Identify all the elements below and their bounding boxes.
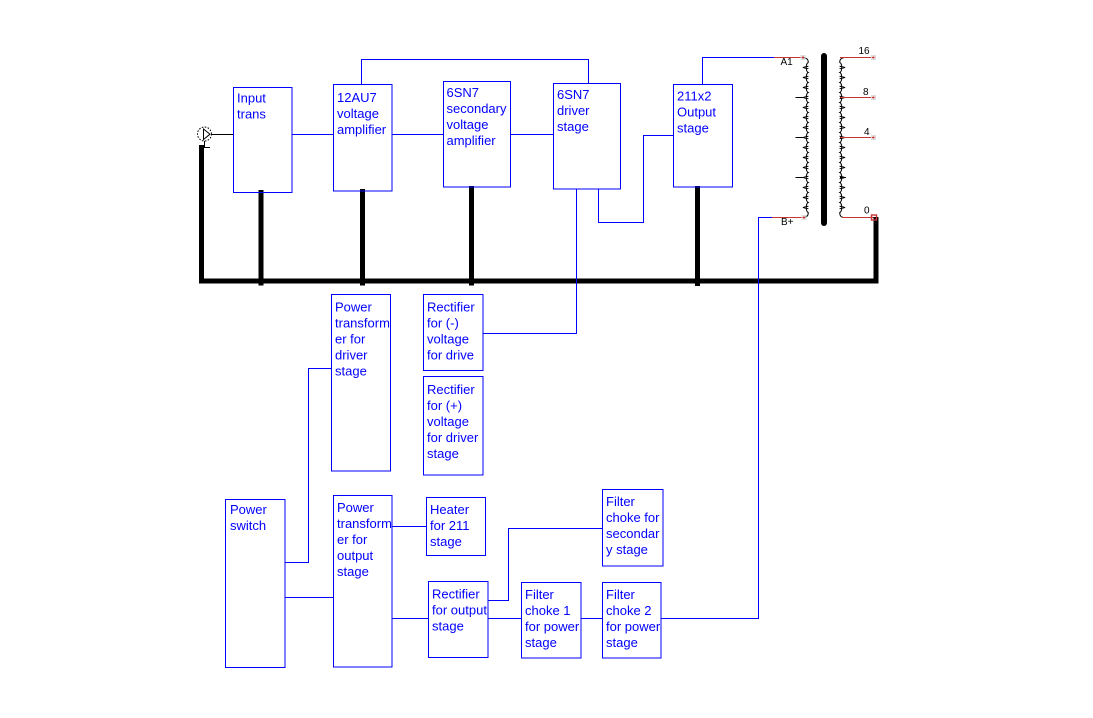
svg-text:0: 0 — [864, 206, 870, 217]
signal source symbol — [198, 127, 212, 148]
svg-text:stage: stage — [430, 534, 462, 549]
svg-text:secondary: secondary — [447, 101, 507, 116]
svg-text:amplifier: amplifier — [337, 122, 387, 137]
svg-text:voltage: voltage — [337, 106, 379, 121]
block 211x2 Output stage — [674, 85, 733, 188]
svg-text:Filter: Filter — [525, 587, 555, 602]
wire 6SN7 driver to 211x2 — [599, 136, 674, 223]
svg-text:12AU7: 12AU7 — [337, 90, 377, 105]
red wire tap 0 — [842, 215, 877, 220]
wire 211x2 to transformer A1 — [703, 58, 775, 85]
svg-text:for output: for output — [432, 603, 487, 618]
svg-text:voltage: voltage — [427, 332, 469, 347]
svg-text:stage: stage — [432, 619, 464, 634]
wire 12AU7 to 6SN7 secondary — [392, 134, 443, 136]
svg-text:211x2: 211x2 — [677, 89, 711, 104]
block 12AU7 voltage amplifier — [334, 85, 393, 192]
block Heater for 211 stage — [427, 498, 486, 556]
svg-text:stage: stage — [525, 635, 557, 650]
svg-text:choke 1: choke 1 — [525, 603, 571, 618]
wire power switch to power transformer driver — [285, 369, 331, 563]
svg-text:choke 2: choke 2 — [606, 603, 652, 618]
svg-text:driver: driver — [557, 103, 590, 118]
svg-text:transform: transform — [337, 516, 392, 531]
block Rectifier for (-) voltage for drive — [424, 295, 484, 371]
svg-text:stage: stage — [606, 635, 638, 650]
svg-text:8: 8 — [863, 87, 869, 98]
svg-text:er for: er for — [337, 532, 368, 547]
output transformer core — [821, 56, 827, 223]
block Power switch — [226, 500, 286, 668]
red wire tap 4 — [840, 136, 876, 140]
svg-text:for drive: for drive — [427, 348, 474, 363]
wire stub 211x2 to bus — [695, 186, 700, 286]
svg-text:Rectifier: Rectifier — [427, 300, 475, 315]
wire feedback 12AU7 top to 6SN7 driver top — [362, 60, 589, 85]
red wire tap 8 — [840, 96, 876, 100]
block Power transformer for driver stage — [332, 295, 391, 472]
svg-text:for driver: for driver — [427, 430, 479, 445]
svg-text:Output: Output — [677, 105, 716, 120]
wire power transformer output to rectifier output — [392, 618, 428, 620]
svg-text:Filter: Filter — [606, 494, 636, 509]
output transformer primary winding — [796, 58, 809, 218]
svg-text:trans: trans — [237, 107, 266, 122]
svg-text:for 211: for 211 — [430, 518, 470, 533]
svg-text:voltage: voltage — [427, 414, 469, 429]
svg-text:y stage: y stage — [606, 542, 648, 557]
svg-text:output: output — [337, 548, 374, 563]
wire 6SN7 driver to rectifier (-) — [483, 189, 577, 334]
wire filter choke 1 to filter choke 2 — [581, 618, 602, 620]
ground bus horizontal — [199, 279, 879, 284]
svg-text:Rectifier: Rectifier — [427, 382, 475, 397]
svg-text:16: 16 — [859, 46, 871, 57]
svg-text:amplifier: amplifier — [447, 133, 497, 148]
red wire A1 — [774, 56, 805, 60]
red wire B+ — [772, 216, 806, 220]
svg-text:A1: A1 — [781, 57, 794, 68]
svg-text:Heater: Heater — [430, 502, 470, 517]
svg-text:Power: Power — [335, 300, 373, 315]
svg-text:switch: switch — [230, 518, 266, 533]
secondary tap stub — [840, 177, 846, 179]
block Input trans — [234, 88, 293, 193]
svg-text:4: 4 — [864, 127, 870, 138]
ground bus (thick) — [199, 145, 879, 286]
wire Input trans to 12AU7 — [292, 134, 333, 136]
wire 6SN7 secondary to 6SN7 driver — [511, 134, 553, 136]
wire power transformer output to heater — [392, 526, 426, 528]
svg-text:Rectifier: Rectifier — [432, 587, 480, 602]
svg-text:Power: Power — [230, 502, 268, 517]
wire stub 6SN7 secondary to bus — [469, 186, 474, 286]
wire source to Input trans — [212, 134, 235, 136]
wire stub transformer 0 tap to bus — [874, 217, 879, 282]
block Filter choke 2 for power stage — [603, 583, 662, 659]
svg-text:stage: stage — [427, 446, 459, 461]
wire rectifier output to filter choke 1 — [488, 618, 521, 620]
wire power switch to power transformer output — [285, 597, 333, 599]
svg-text:for power: for power — [606, 619, 661, 634]
svg-text:transform: transform — [335, 316, 390, 331]
block 6SN7 driver stage — [554, 84, 621, 190]
block Rectifier for output stage — [429, 582, 489, 658]
svg-text:for (-): for (-) — [427, 316, 459, 331]
wire rectifier output to filter choke secondary — [488, 529, 602, 601]
block Filter choke for secondary stage — [603, 490, 664, 567]
svg-text:er for: er for — [335, 332, 366, 347]
svg-text:B+: B+ — [781, 217, 794, 228]
svg-text:for (+): for (+) — [427, 398, 462, 413]
svg-text:stage: stage — [557, 119, 589, 134]
svg-text:choke for: choke for — [606, 510, 660, 525]
block Rectifier for (+) voltage for driver stage — [424, 377, 484, 476]
svg-text:driver: driver — [335, 348, 368, 363]
svg-text:stage: stage — [335, 364, 367, 379]
wire stub 12AU7 to bus — [360, 189, 365, 286]
red wire tap 16 — [840, 56, 876, 60]
svg-text:Input: Input — [237, 91, 266, 106]
wire stub Input trans to bus — [259, 190, 264, 286]
block Power transformer for output stage — [334, 496, 393, 668]
svg-text:6SN7: 6SN7 — [447, 85, 480, 100]
svg-text:secondar: secondar — [606, 526, 660, 541]
svg-text:stage: stage — [677, 121, 709, 136]
svg-text:voltage: voltage — [447, 117, 489, 132]
svg-text:Filter: Filter — [606, 587, 636, 602]
output transformer secondary winding — [840, 58, 845, 218]
wire ground left vertical — [199, 145, 204, 284]
svg-text:for power: for power — [525, 619, 580, 634]
svg-text:stage: stage — [337, 564, 369, 579]
svg-text:6SN7: 6SN7 — [557, 87, 590, 102]
block 6SN7 secondary voltage amplifier — [444, 82, 511, 188]
blue wires — [285, 58, 774, 619]
svg-text:Power: Power — [337, 500, 375, 515]
wire B+ from transformer down to filter choke 2 — [661, 218, 772, 619]
block Filter choke 1 for power stage — [522, 583, 582, 659]
